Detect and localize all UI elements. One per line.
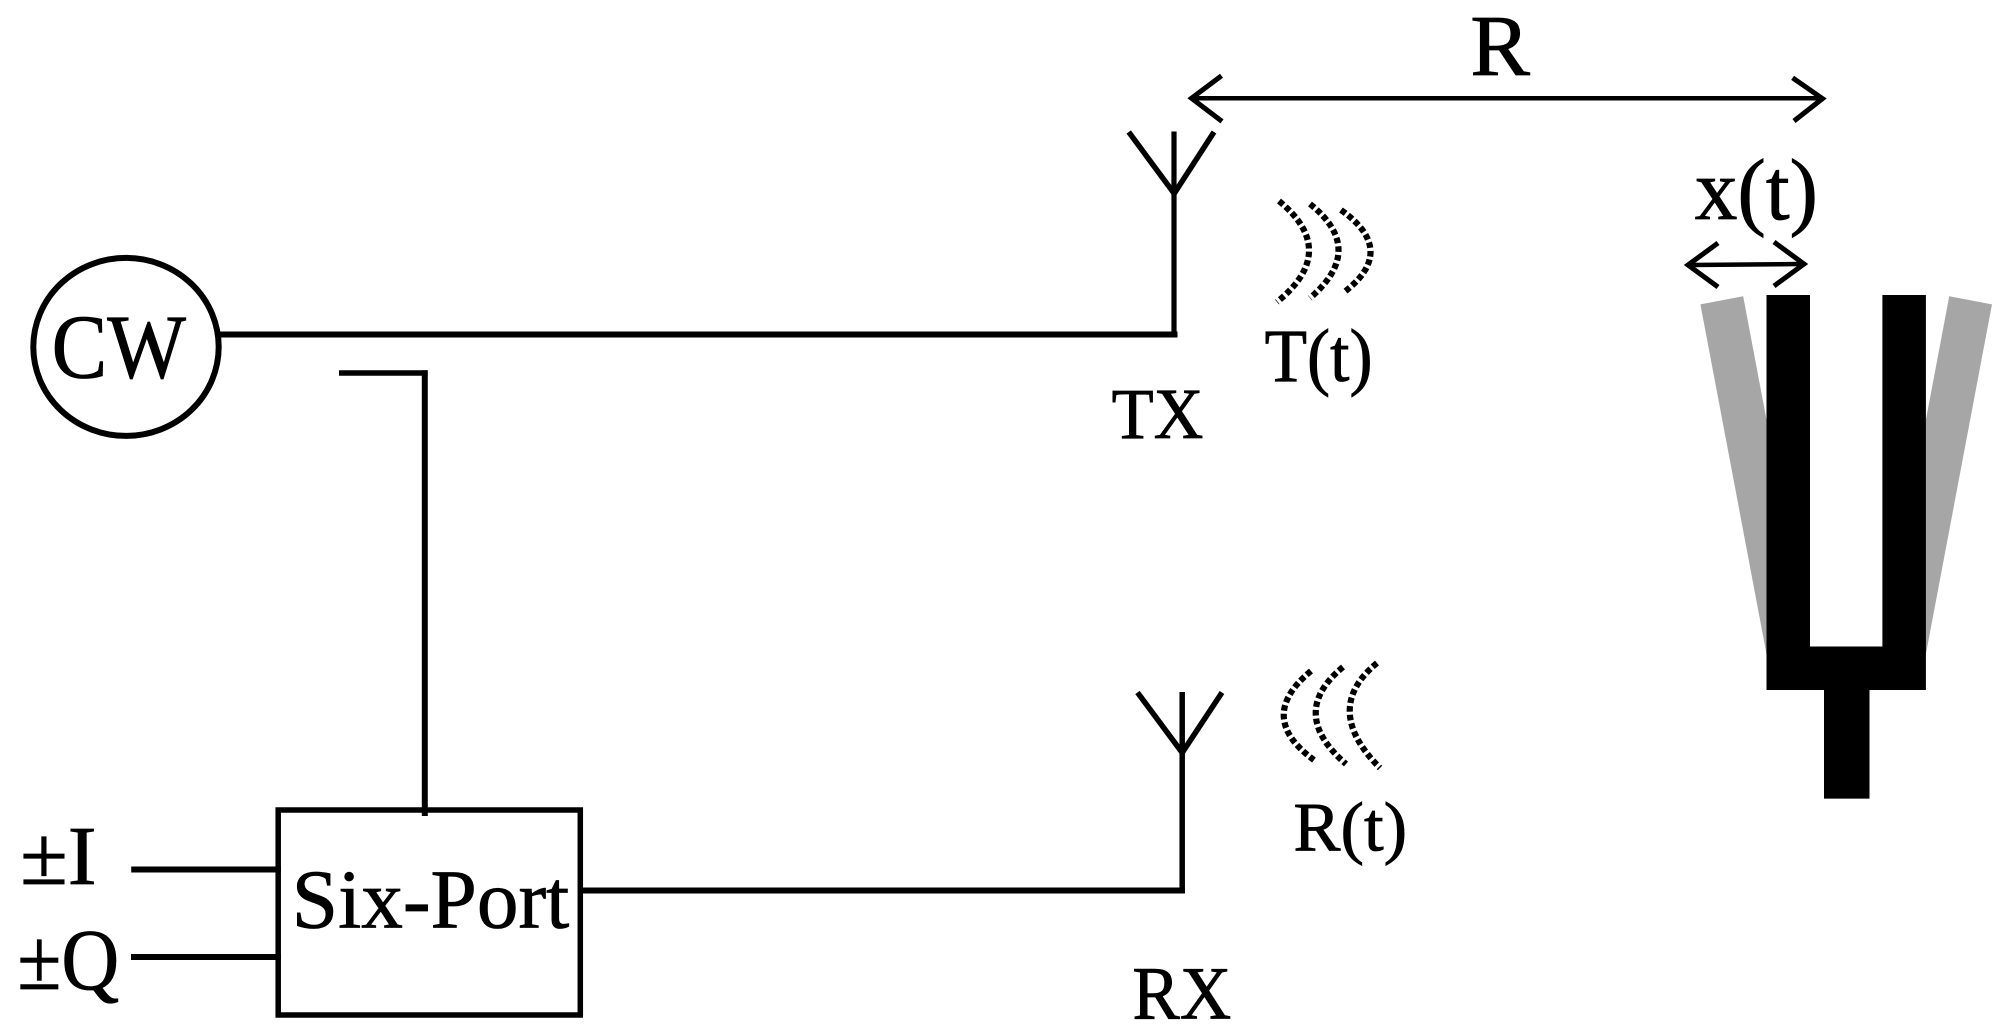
svg-text:±I: ±I	[20, 810, 96, 903]
svg-text:TX: TX	[1112, 374, 1204, 454]
svg-text:RX: RX	[1132, 952, 1231, 1035]
svg-text:x(t): x(t)	[1695, 142, 1818, 238]
svg-text:R: R	[1470, 0, 1530, 94]
svg-text:R(t): R(t)	[1293, 789, 1407, 867]
svg-text:CW: CW	[52, 296, 187, 398]
svg-text:±Q: ±Q	[17, 911, 119, 1008]
svg-text:T(t): T(t)	[1265, 315, 1373, 398]
svg-text:Six-Port: Six-Port	[292, 853, 570, 946]
